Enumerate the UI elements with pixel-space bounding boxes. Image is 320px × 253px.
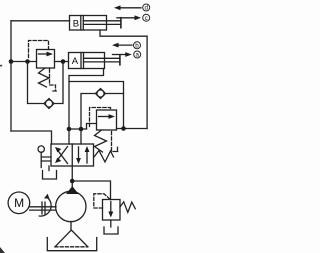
wire valve2 out bbox=[117, 128, 148, 130]
wire DCV top port1 bbox=[68, 129, 70, 144]
spring valve2 bbox=[95, 130, 107, 152]
sequence valve 2 bbox=[97, 110, 117, 130]
wire DCV T port bbox=[48, 166, 50, 171]
motor M bbox=[8, 192, 30, 214]
wire valve1 inlet bbox=[11, 61, 37, 63]
svg-text:A: A bbox=[72, 56, 79, 67]
sequence valve 1 bbox=[37, 50, 55, 69]
wire A rod branch bbox=[69, 82, 124, 129]
tank DCV bbox=[43, 171, 57, 180]
spring relief bbox=[120, 202, 135, 213]
spring DCV bbox=[94, 151, 114, 163]
svg-text:B: B bbox=[73, 19, 79, 30]
drain dashed valve1 bbox=[50, 69, 59, 91]
tank main bbox=[47, 238, 96, 251]
check valve 2 bbox=[96, 89, 106, 99]
node j7 bbox=[70, 179, 75, 184]
arrow d bbox=[114, 5, 141, 10]
drain dashed valve2 bbox=[112, 132, 120, 152]
wire check2 left bbox=[81, 94, 95, 130]
node j3 bbox=[61, 59, 66, 64]
wire bus bbox=[69, 128, 87, 130]
circled a bbox=[134, 51, 141, 58]
cylinder B bbox=[70, 16, 121, 31]
arrow a bbox=[113, 52, 132, 57]
spring valve1 bbox=[39, 68, 50, 87]
pump bbox=[56, 186, 86, 222]
wire check1 branch bbox=[28, 62, 44, 104]
pilot dashed relief bbox=[94, 194, 110, 208]
wire check1 out bbox=[55, 62, 63, 104]
circled d bbox=[143, 4, 150, 11]
wire B rod line bbox=[100, 30, 147, 129]
arrow b bbox=[112, 43, 132, 48]
coupling bbox=[30, 202, 56, 214]
lever operator bbox=[38, 146, 51, 168]
tank relief bbox=[104, 227, 118, 234]
arrow c bbox=[117, 15, 141, 20]
wire relief drain bbox=[110, 220, 112, 227]
wire check2 right bbox=[107, 93, 124, 95]
wire A rod line bbox=[69, 69, 104, 130]
svg-text:a: a bbox=[135, 52, 139, 59]
svg-text:M: M bbox=[14, 196, 24, 210]
svg-text:b: b bbox=[135, 43, 139, 50]
DCV 4/2 valve bbox=[51, 144, 94, 166]
circled b bbox=[134, 42, 141, 49]
wire suction bbox=[70, 222, 72, 231]
straight arrows right square bbox=[78, 147, 80, 160]
node j6 bbox=[79, 127, 84, 132]
svg-text:d: d bbox=[144, 5, 148, 12]
wire DCV P port bbox=[71, 166, 73, 187]
circled c bbox=[143, 14, 150, 21]
svg-text:c: c bbox=[145, 15, 148, 22]
wire DCV-A feed bbox=[11, 131, 52, 144]
pilot dashed valve2 bbox=[90, 108, 111, 127]
crossed arrows left square bbox=[58, 150, 68, 164]
node j5 bbox=[67, 127, 72, 132]
node j2 bbox=[25, 59, 30, 64]
node j4 bbox=[121, 126, 126, 131]
pilot dashed valve1 bbox=[29, 41, 49, 58]
wire left riser bbox=[10, 21, 12, 131]
check valve 1 bbox=[44, 99, 54, 109]
cylinder A bbox=[69, 53, 120, 69]
scan artifact bottom-left corner bbox=[0, 247, 5, 253]
strainer bbox=[55, 230, 88, 247]
wire valve1 out bbox=[55, 61, 69, 63]
wire B cap line bbox=[11, 20, 70, 22]
node j1 bbox=[9, 59, 14, 64]
scan speck left edge bbox=[0, 65, 2, 67]
relief valve bbox=[103, 200, 121, 221]
wire valve2 in bbox=[87, 124, 97, 130]
rotation arrow bbox=[39, 194, 51, 216]
wire DCV top port2 bbox=[80, 129, 82, 144]
wire relief branch bbox=[72, 181, 110, 200]
